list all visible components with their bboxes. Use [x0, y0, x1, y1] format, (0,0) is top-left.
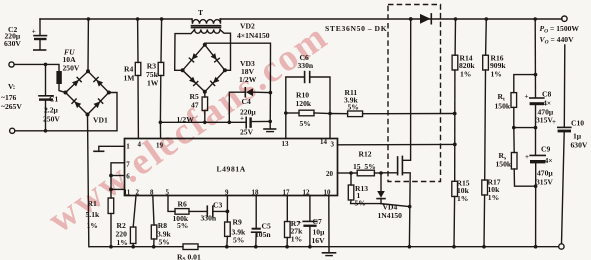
diode VD4 1N4150: [377, 173, 411, 220]
wire top rail right of transformer: [220, 18, 562, 20]
svg-text:120k: 120k: [296, 99, 312, 108]
svg-text:47: 47: [191, 101, 199, 110]
svg-text:C10: C10: [571, 119, 584, 128]
diode VD1b upper-right: [94, 77, 103, 86]
resistor R3 75k 1W: [146, 17, 164, 122]
wire input top: [14, 64, 59, 71]
balancing resistor Rt 150k: [495, 73, 538, 130]
resistor R6 100k 5%: [168, 196, 207, 231]
svg-text:RS 0.01: RS 0.01: [177, 253, 201, 260]
resistor R4 1M: [124, 17, 141, 138]
diode VD1d lower-right: [94, 99, 103, 108]
svg-text:C4: C4: [242, 97, 251, 106]
svg-text:5%: 5%: [355, 199, 366, 208]
watermark www.elecfans.com: [40, 15, 335, 241]
svg-text:3: 3: [331, 141, 335, 149]
wire bridge DC- down to ground rail: [88, 115, 90, 247]
svg-text:20: 20: [326, 170, 334, 178]
bridge VD2 4x1N4150: [181, 22, 270, 94]
resistor R8 3.9k 5%: [151, 196, 171, 249]
capacitor C3 330n: [201, 201, 230, 223]
input terminal L: [9, 62, 14, 67]
resistor R2 220 1%: [116, 196, 137, 249]
svg-text:+: +: [32, 28, 36, 36]
resistor R5 47 1/2W: [177, 92, 208, 124]
top rail (+ boost node): [40, 18, 192, 20]
svg-text:5%: 5%: [233, 236, 244, 245]
diode VD2d lower-right: [211, 77, 220, 86]
capacitor C6 330n with pin13/pin14 wires: [286, 53, 330, 139]
fuse FU 10A 250V: [56, 71, 61, 84]
capacitor C5 105n: [252, 196, 272, 249]
svg-text:4×1N4150: 4×1N4150: [237, 31, 270, 40]
diode VD1c lower-left: [72, 99, 81, 108]
svg-text:17: 17: [283, 188, 291, 196]
svg-text:1%: 1%: [460, 70, 471, 79]
svg-text:4×: 4×: [543, 99, 551, 108]
svg-text:5%: 5%: [348, 103, 359, 112]
resistor R9 3.9k 5%: [225, 196, 246, 249]
svg-text:315V: 315V: [536, 116, 553, 125]
boost diode (in module): [409, 14, 431, 24]
svg-text:4: 4: [138, 141, 142, 149]
transistor Q1 MOSFET (in module): [381, 19, 411, 249]
zener VD3 18V 1/2W: [229, 59, 272, 122]
diode VD1a upper-left: [72, 77, 81, 86]
wire bridge DC+ up to rail: [87, 19, 89, 71]
ground rail bottom: [89, 246, 183, 248]
svg-text:+: +: [298, 219, 302, 227]
wire secondary left to VD2: [175, 30, 195, 71]
svg-text:19: 19: [156, 141, 164, 149]
bridge VD1: [64, 69, 111, 124]
output terminal -: [559, 244, 564, 249]
svg-text:5%: 5%: [177, 221, 188, 230]
resistor R15 10k 1%: [452, 179, 470, 249]
capacitor C1: [39, 63, 60, 133]
svg-text:+: +: [525, 93, 529, 101]
svg-text:C8: C8: [542, 90, 551, 99]
svg-text:1%: 1%: [457, 194, 468, 203]
svg-text:1%: 1%: [87, 221, 98, 230]
resistor R13 1 5%: [348, 173, 381, 208]
resistor R14 820k 1%: [452, 17, 475, 181]
svg-text:14: 14: [320, 138, 328, 146]
svg-text:1N4150: 1N4150: [378, 211, 403, 220]
shunt resistor RS 0.01: [183, 244, 198, 250]
svg-text:1%: 1%: [291, 235, 302, 244]
resistor R11 3.9k 5%: [330, 88, 457, 117]
svg-text:1W: 1W: [147, 79, 159, 88]
svg-text:12: 12: [303, 188, 311, 196]
svg-text:R6: R6: [178, 200, 187, 209]
wire secondary right to VD2: [220, 30, 230, 71]
svg-text:18: 18: [252, 188, 260, 196]
svg-text:R9: R9: [233, 218, 242, 227]
svg-text:+: +: [552, 118, 556, 126]
svg-text:C1: C1: [49, 95, 58, 104]
resistor R7 27k 1%: [285, 196, 304, 249]
capacitor C7 10u 16V: [298, 196, 325, 249]
svg-text:R1: R1: [88, 199, 97, 208]
svg-text:1/2W: 1/2W: [239, 75, 257, 84]
svg-text:4×: 4×: [545, 156, 553, 165]
pin 1 ground: [99, 146, 125, 150]
resistor R16 909k 1%: [483, 17, 507, 180]
svg-text:1%: 1%: [488, 193, 499, 202]
svg-text:VD1: VD1: [93, 116, 108, 125]
svg-text:STE36N50 – DK: STE36N50 – DK: [325, 24, 387, 33]
wire pin 3 to divider tap: [338, 143, 455, 145]
wires pins 7/6/11 to R1 column: [111, 163, 125, 198]
svg-text:7: 7: [126, 161, 130, 169]
svg-text:5%: 5%: [159, 238, 170, 247]
svg-text:220μ: 220μ: [240, 108, 256, 117]
svg-text:6: 6: [126, 173, 130, 181]
diode VD2a upper-left: [189, 53, 198, 62]
svg-text:1M: 1M: [124, 74, 135, 83]
svg-text:330n: 330n: [201, 214, 217, 223]
svg-text:C3: C3: [213, 201, 222, 210]
capacitor C10 1u 630V: [552, 45, 588, 244]
svg-text:25V: 25V: [240, 128, 254, 137]
svg-text:2.2μ: 2.2μ: [44, 106, 58, 115]
capacitor C9 4x470u 315V: [525, 145, 553, 249]
output terminal +: [562, 16, 567, 21]
svg-text:15 5%: 15 5%: [353, 162, 376, 171]
svg-text:R4: R4: [124, 65, 133, 74]
balancing resistor Rs 150k: [496, 128, 538, 188]
svg-text:1: 1: [126, 143, 130, 151]
svg-text:1%: 1%: [117, 238, 128, 247]
wire input bottom to bridge AC2: [15, 93, 117, 131]
capacitor C2: [4, 19, 47, 50]
svg-text:150k: 150k: [496, 160, 512, 169]
svg-text:250V: 250V: [43, 115, 60, 124]
Vcc node wire (pin19 / R3 / R5 / C4): [160, 121, 246, 123]
signal ground (VD3/C4): [269, 93, 271, 129]
svg-text:315V: 315V: [536, 178, 553, 187]
svg-text:1%: 1%: [491, 70, 502, 79]
diode VD2c lower-left: [189, 77, 198, 86]
svg-text:V:: V:: [8, 82, 15, 91]
svg-text:630V: 630V: [571, 141, 588, 150]
svg-text:105n: 105n: [255, 230, 271, 239]
svg-text:330n: 330n: [298, 61, 314, 70]
svg-text:13: 13: [282, 140, 290, 148]
svg-text:470μ: 470μ: [537, 169, 553, 178]
svg-text:16V: 16V: [312, 236, 326, 245]
resistor R1 5.1k 1%: [86, 198, 114, 249]
resistor R17 10k 1%: [482, 178, 501, 249]
resistor R12 15 5%: [338, 150, 383, 176]
svg-text:1μ: 1μ: [573, 132, 582, 141]
module STE36N50-DK dashed box: [388, 5, 441, 182]
svg-text:C9: C9: [541, 145, 550, 154]
op-amp U1 L4981A IC body: [124, 138, 338, 197]
svg-text:~176: ~176: [1, 93, 17, 102]
input terminal N: [10, 128, 15, 133]
svg-text:5.1k: 5.1k: [86, 210, 100, 219]
svg-text:C7: C7: [313, 217, 322, 226]
svg-text:630V: 630V: [4, 39, 21, 48]
capacitor C8 4x470u 315V: [525, 17, 554, 155]
svg-text:T: T: [198, 8, 203, 17]
svg-text:R12: R12: [359, 150, 372, 159]
svg-text:L4981A: L4981A: [217, 165, 246, 174]
svg-text:250V: 250V: [63, 64, 80, 73]
ground symbol main: [328, 247, 330, 253]
pin 10 wire to ground: [328, 196, 330, 247]
svg-text:~265V: ~265V: [1, 102, 22, 111]
svg-text:5%: 5%: [300, 119, 311, 128]
svg-text:VD2: VD2: [240, 22, 255, 31]
svg-text:10: 10: [324, 188, 332, 196]
diode VD2b upper-right: [211, 53, 220, 62]
transformer T: [175, 8, 231, 70]
svg-text:+: +: [525, 153, 529, 161]
svg-text:150k: 150k: [495, 102, 511, 111]
capacitor C4 220u 25V: [240, 97, 272, 137]
resistor R10 120k 5%: [284, 91, 332, 129]
wire VD2 top to gnd column: [205, 43, 271, 92]
